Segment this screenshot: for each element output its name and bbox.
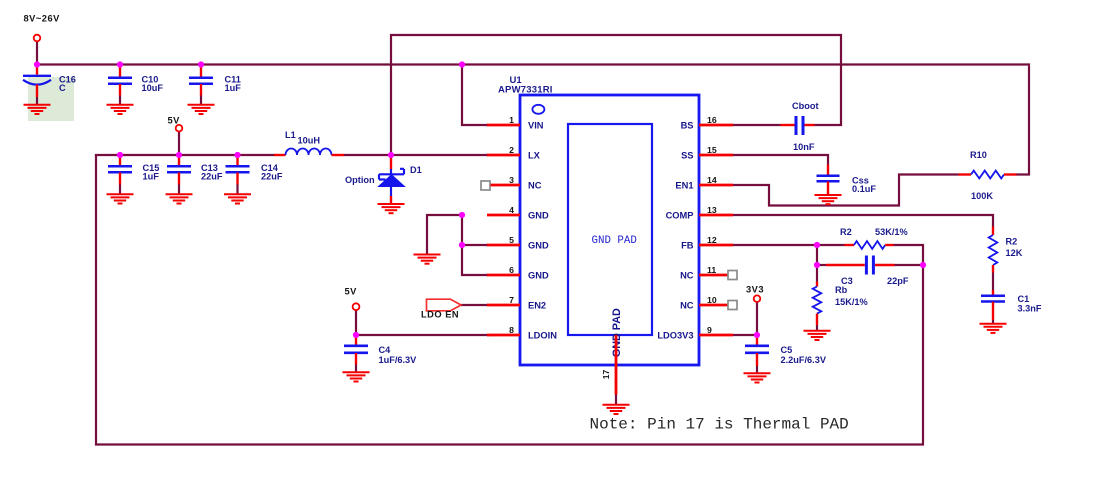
- resistor Rb: [804, 282, 868, 341]
- capacitor C11: [188, 65, 242, 115]
- ground for GND pins: [414, 255, 441, 264]
- svg-text:C1: C1: [1018, 294, 1030, 304]
- wire bus to VIN pin: [462, 65, 488, 126]
- svg-text:12: 12: [707, 235, 717, 245]
- wire 5V terminal to LDOIN: [356, 310, 490, 335]
- capacitor C3: [826, 256, 909, 287]
- capacitor C1: [980, 290, 1042, 333]
- capacitor C16: [23, 65, 76, 115]
- svg-text:14: 14: [707, 175, 717, 185]
- svg-text:1uF: 1uF: [225, 83, 242, 93]
- svg-text:C4: C4: [379, 345, 392, 355]
- svg-text:L1: L1: [285, 130, 296, 140]
- svg-text:5V: 5V: [168, 116, 181, 126]
- capacitor C14: [224, 155, 283, 204]
- svg-text:EN1: EN1: [675, 181, 693, 191]
- junction input terminal: [34, 61, 40, 67]
- svg-text:NC: NC: [680, 271, 694, 281]
- svg-text:17: 17: [601, 370, 611, 380]
- pin 4 GND: [487, 205, 549, 221]
- wire EN1 to R10: [733, 175, 959, 206]
- svg-text:COMP: COMP: [666, 211, 694, 221]
- junction C13: [176, 152, 182, 158]
- svg-text:13: 13: [707, 205, 717, 215]
- svg-text:GND: GND: [528, 211, 549, 221]
- svg-text:VIN: VIN: [528, 121, 544, 131]
- wire 5V terminal to bus: [178, 132, 180, 156]
- wire L1 to LX pin: [344, 154, 489, 156]
- svg-text:3V3: 3V3: [746, 285, 764, 295]
- svg-text:2.2uF/6.3V: 2.2uF/6.3V: [781, 355, 827, 365]
- pin 2 LX: [487, 145, 541, 161]
- svg-text:0.1uF: 0.1uF: [852, 184, 876, 194]
- pin 7 EN2: [487, 295, 546, 311]
- capacitor C4: [343, 335, 418, 382]
- svg-text:9: 9: [707, 325, 712, 335]
- wire FB node down to Rb: [816, 245, 818, 282]
- svg-text:D1: D1: [410, 165, 422, 175]
- svg-text:5: 5: [509, 235, 514, 245]
- wire C3 right to corner: [895, 264, 925, 266]
- wire SS pin to Css: [733, 155, 828, 165]
- wire input terminal stub: [36, 41, 38, 65]
- svg-text:1uF: 1uF: [143, 171, 160, 181]
- capacitor C5: [744, 335, 827, 383]
- capacitor C10: [107, 65, 164, 115]
- junction C14: [234, 152, 240, 158]
- svg-text:LDOIN: LDOIN: [528, 331, 557, 341]
- svg-text:16: 16: [707, 115, 717, 125]
- wire R2 right to corner: [894, 245, 924, 265]
- svg-text:15K/1%: 15K/1%: [835, 297, 868, 307]
- wire R10 to input bus: [1017, 66, 1030, 175]
- pin 10 NC: [680, 295, 737, 311]
- svg-text:LDO EN: LDO EN: [421, 310, 459, 320]
- svg-text:R2: R2: [840, 227, 852, 237]
- svg-text:6: 6: [509, 265, 514, 275]
- wire GND pins bus: [427, 215, 488, 275]
- svg-text:Option: Option: [345, 175, 375, 185]
- junction C15: [117, 152, 123, 158]
- pin 8 LDOIN: [487, 325, 557, 341]
- highlight box: [28, 77, 74, 121]
- svg-text:22pF: 22pF: [887, 276, 909, 286]
- svg-text:R2: R2: [1006, 237, 1018, 247]
- capacitor C15: [107, 155, 160, 204]
- svg-text:EN2: EN2: [528, 301, 546, 311]
- terminal 5V LDOIN: [345, 287, 360, 311]
- wire C3 left lead stub: [817, 264, 826, 266]
- svg-text:C5: C5: [781, 345, 793, 355]
- wire FB to R2: [733, 244, 845, 246]
- junction GND pin4: [459, 212, 465, 218]
- junction LDOIN node: [353, 332, 359, 338]
- svg-text:GND PAD: GND PAD: [592, 235, 637, 247]
- svg-text:LX: LX: [528, 151, 541, 161]
- wire 5V output bus: [95, 154, 275, 156]
- wire COMP to R2 12K: [733, 215, 993, 227]
- svg-text:NC: NC: [528, 181, 542, 191]
- U1 GND PAD vertical label: [611, 308, 623, 357]
- terminal 3V3: [746, 285, 764, 303]
- svg-text:15: 15: [707, 145, 717, 155]
- svg-text:12K: 12K: [1006, 248, 1023, 258]
- junction FB node: [814, 242, 820, 248]
- wire LDO3V3 to 3V3 node: [733, 302, 757, 335]
- junction C11: [198, 61, 204, 67]
- svg-text:LDO3V3: LDO3V3: [657, 331, 693, 341]
- svg-text:7: 7: [509, 295, 514, 305]
- pin 3 NC: [481, 175, 542, 191]
- svg-text:2: 2: [509, 145, 514, 155]
- pin 15 SS: [681, 145, 733, 161]
- svg-text:BS: BS: [681, 121, 694, 131]
- svg-text:C: C: [59, 83, 66, 93]
- capacitor Css: [815, 165, 877, 205]
- junction C3 right: [920, 262, 926, 268]
- svg-text:GND: GND: [528, 241, 549, 251]
- svg-text:APW7331RI: APW7331RI: [498, 85, 553, 96]
- terminal 5V top: [168, 116, 183, 132]
- svg-text:3.3nF: 3.3nF: [1018, 304, 1042, 314]
- wire LDO EN port to EN2: [461, 304, 489, 306]
- pin 14 EN1: [675, 175, 733, 191]
- svg-text:Cboot: Cboot: [792, 101, 819, 111]
- pin 16 BS: [681, 115, 733, 131]
- svg-text:5V: 5V: [345, 287, 358, 297]
- diode D1: [345, 156, 422, 213]
- svg-text:11: 11: [707, 265, 716, 275]
- junction C3 left: [814, 262, 820, 268]
- svg-text:FB: FB: [681, 241, 694, 251]
- pin 6 GND: [487, 265, 549, 281]
- pin 12 FB: [681, 235, 733, 251]
- svg-text:8V~26V: 8V~26V: [24, 14, 61, 24]
- svg-text:22uF: 22uF: [261, 171, 283, 181]
- svg-text:10: 10: [707, 295, 717, 305]
- svg-text:53K/1%: 53K/1%: [875, 227, 908, 237]
- svg-text:100K: 100K: [971, 191, 993, 201]
- svg-text:R10: R10: [970, 150, 987, 160]
- resistor R2 12K: [989, 227, 1023, 291]
- svg-text:1uF/6.3V: 1uF/6.3V: [379, 355, 418, 365]
- inductor L1: [274, 130, 344, 155]
- junction LDO3V3 node: [754, 332, 760, 338]
- svg-text:22uF: 22uF: [201, 171, 223, 181]
- svg-text:8: 8: [509, 325, 514, 335]
- resistor R2 53K: [840, 227, 908, 249]
- port LDO EN: [421, 299, 461, 319]
- capacitor Cboot: [781, 101, 819, 152]
- pin 17 thermal pad stub: [601, 335, 616, 405]
- wire VIN input bus: [36, 63, 1030, 65]
- pin 9 LDO3V3: [657, 325, 733, 341]
- wire LX to Cboot bootstrap: [391, 35, 841, 155]
- svg-text:NC: NC: [680, 301, 694, 311]
- pin 11 NC: [680, 265, 737, 281]
- pin 13 COMP: [666, 205, 733, 221]
- svg-text:Rb: Rb: [835, 285, 848, 295]
- junction VIN drop: [459, 61, 465, 67]
- pin 1 VIN: [487, 115, 544, 131]
- wire GND pin 5 stub: [462, 244, 488, 246]
- wire BS pin to Cboot: [733, 124, 781, 126]
- svg-text:10uF: 10uF: [142, 83, 164, 93]
- svg-text:3: 3: [509, 175, 514, 185]
- svg-text:1: 1: [509, 115, 514, 125]
- svg-text:GND: GND: [528, 271, 549, 281]
- svg-text:10uH: 10uH: [298, 136, 321, 146]
- note text: [590, 415, 849, 433]
- junction LX D1: [388, 152, 394, 158]
- wire Cboot to bootstrap drop: [815, 124, 843, 126]
- terminal 8V~26V: [24, 14, 61, 42]
- junction GND pin5: [459, 242, 465, 248]
- ground pin 17: [603, 405, 630, 414]
- op-amp U1 body: [498, 75, 699, 365]
- svg-text:4: 4: [509, 205, 514, 215]
- svg-text:10nF: 10nF: [793, 142, 815, 152]
- capacitor C13: [166, 155, 223, 204]
- junction C10: [117, 61, 123, 67]
- svg-text:Note: Pin 17 is Thermal PAD: Note: Pin 17 is Thermal PAD: [590, 415, 849, 433]
- svg-text:SS: SS: [681, 151, 693, 161]
- resistor R10: [959, 150, 1017, 201]
- pin 5 GND: [487, 235, 549, 251]
- wire output sense loop: [96, 154, 923, 445]
